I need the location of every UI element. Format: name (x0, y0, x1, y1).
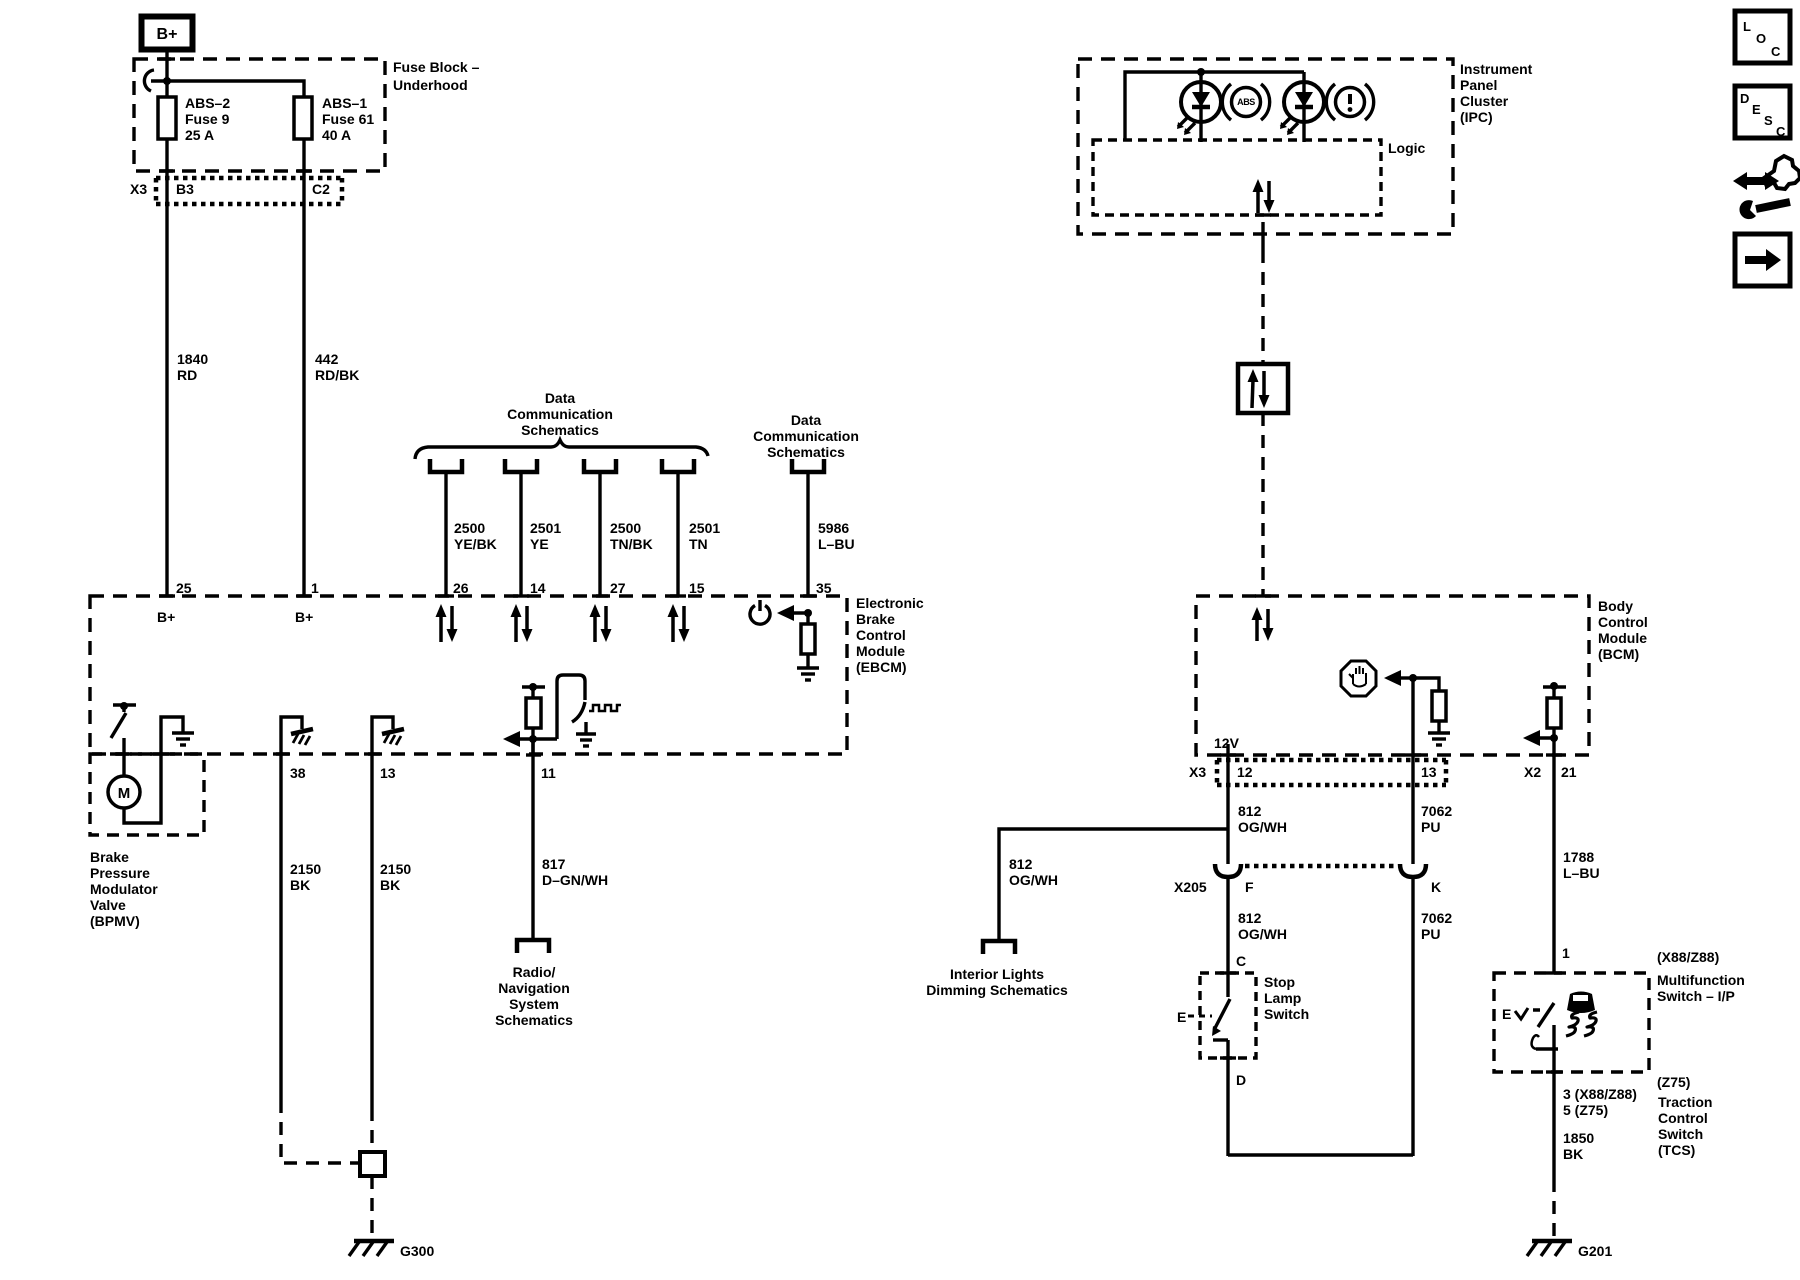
svg-text:OG/WH: OG/WH (1238, 819, 1287, 835)
svg-text:Cluster: Cluster (1460, 93, 1509, 109)
svg-text:(TCS): (TCS) (1658, 1142, 1695, 1158)
svg-text:3 (X88/Z88): 3 (X88/Z88) (1563, 1086, 1637, 1102)
wire 817 D-GN/WH pin 11 to radio (531, 739, 534, 940)
svg-text:OG/WH: OG/WH (1009, 872, 1058, 888)
svg-text:1788: 1788 (1563, 849, 1594, 865)
wire brake LED branch (1302, 72, 1305, 142)
svg-text:Pressure: Pressure (90, 865, 150, 881)
svg-text:Fuse Block –: Fuse Block – (393, 59, 480, 75)
svg-text:13: 13 (380, 765, 396, 781)
off-page connector wire 2500 YE/BK (430, 459, 462, 472)
arrow into EBCM logic pin 35 (777, 605, 808, 621)
svg-text:Data: Data (791, 412, 822, 428)
switch brake signal in EBCM (557, 675, 585, 739)
wire IPC telltale bus (1125, 72, 1304, 140)
ground G201 chassis symbol (1527, 1241, 1572, 1256)
svg-text:TN: TN (689, 536, 708, 552)
svg-text:F: F (1245, 879, 1254, 895)
svg-text:(EBCM): (EBCM) (856, 659, 907, 675)
wire label 812 OG/WH branch (1009, 856, 1058, 888)
battery feed B+ box (142, 17, 193, 50)
svg-text:B+: B+ (157, 26, 178, 43)
svg-text:YE/BK: YE/BK (454, 536, 497, 552)
svg-text:RD/BK: RD/BK (315, 367, 359, 383)
fuse ABS-1 Fuse 61 40A (294, 97, 312, 139)
off-page connector wire 2500 TN/BK (584, 459, 616, 472)
svg-text:Navigation: Navigation (498, 980, 570, 996)
svg-text:B3: B3 (176, 181, 194, 197)
brace over data wires (415, 440, 708, 459)
svg-text:B+: B+ (157, 609, 175, 625)
svg-text:2150: 2150 (290, 861, 321, 877)
wire label 812 OG/WH upper (1238, 803, 1287, 835)
bidirectional data arrows pin 15 (668, 604, 690, 642)
dashed serial data wire lower (1261, 413, 1264, 596)
LED brake indicator (1280, 82, 1324, 135)
wire junction to pull-up resistor (1413, 678, 1439, 691)
svg-text:Modulator: Modulator (90, 881, 158, 897)
svg-text:Logic: Logic (1388, 140, 1426, 156)
wire 1850 BK (1552, 1072, 1555, 1179)
traction control skid icon (1566, 992, 1597, 1037)
wire serial data crossing IPC boundary (1261, 222, 1264, 250)
wire label 812 OG/WH lower (1238, 910, 1287, 942)
svg-text:PU: PU (1421, 926, 1440, 942)
svg-text:11: 11 (541, 765, 556, 781)
svg-text:Fuse 9: Fuse 9 (185, 111, 230, 127)
svg-text:Module: Module (856, 643, 905, 659)
svg-text:442: 442 (315, 351, 339, 367)
svg-text:Stop: Stop (1264, 974, 1295, 990)
wire 812 OG/WH BCM pin 12 (1226, 744, 1229, 864)
brake apply sensing in EBCM: supply bar (522, 683, 545, 698)
label Interior Lights Dimming Schematics (926, 966, 1068, 998)
svg-text:ABS: ABS (1237, 97, 1255, 107)
wire label 7062 PU upper (1421, 803, 1452, 835)
wire to termination resistor (806, 613, 809, 624)
stop lamp switch dashed box (1200, 973, 1256, 1058)
svg-text:Switch – I/P: Switch – I/P (1657, 988, 1735, 1004)
wire 2500 TN/BK to EBCM pin 27 (598, 474, 601, 596)
svg-text:21: 21 (1561, 764, 1577, 780)
svg-text:Module: Module (1598, 630, 1647, 646)
fuse ABS-2 Fuse 9 25A (158, 97, 176, 139)
stop hand symbol in BCM (1341, 661, 1376, 696)
serial data two-way box (1238, 364, 1288, 413)
bidirectional data arrows BCM (1252, 607, 1274, 641)
svg-text:X3: X3 (1189, 764, 1206, 780)
BCM dashed box (1196, 596, 1589, 755)
svg-text:OG/WH: OG/WH (1238, 926, 1287, 942)
svg-text:7062: 7062 (1421, 803, 1452, 819)
svg-text:L–BU: L–BU (1563, 865, 1600, 881)
dashed wire 38 to splice (281, 1100, 358, 1163)
svg-text:YE: YE (530, 536, 549, 552)
svg-text:Lamp: Lamp (1264, 990, 1301, 1006)
connector X3 dotted box at fuse block (156, 178, 342, 204)
svg-text:26: 26 (453, 580, 469, 596)
svg-text:O: O (1756, 31, 1766, 46)
svg-text:(IPC): (IPC) (1460, 109, 1493, 125)
svg-text:ABS–1: ABS–1 (322, 95, 367, 111)
svg-text:S: S (1764, 113, 1773, 128)
svg-text:G300: G300 (400, 1243, 434, 1259)
svg-text:Brake: Brake (90, 849, 129, 865)
svg-text:14: 14 (530, 580, 546, 596)
svg-text:TN/BK: TN/BK (610, 536, 653, 552)
svg-text:2501: 2501 (530, 520, 561, 536)
svg-text:BK: BK (290, 877, 310, 893)
actuator E label TCS (1502, 1006, 1540, 1022)
svg-text:Schematics: Schematics (495, 1012, 573, 1028)
svg-text:(X88/Z88): (X88/Z88) (1657, 949, 1719, 965)
svg-text:1840: 1840 (177, 351, 208, 367)
wire switch D leg (1213, 1038, 1228, 1041)
svg-text:812: 812 (1238, 803, 1262, 819)
svg-text:L: L (1743, 19, 1751, 34)
dashed serial data wire upper (1261, 250, 1264, 364)
svg-text:E: E (1752, 102, 1761, 117)
svg-text:1: 1 (1562, 945, 1570, 961)
svg-text:5 (Z75): 5 (Z75) (1563, 1102, 1608, 1118)
svg-text:Communication: Communication (507, 406, 613, 422)
svg-text:2501: 2501 (689, 520, 720, 536)
wire loop D to K (1228, 1153, 1413, 1156)
svg-text:1: 1 (311, 580, 319, 596)
svg-text:35: 35 (816, 580, 832, 596)
svg-text:Body: Body (1598, 598, 1633, 614)
arrow to stop hand (1384, 670, 1413, 686)
svg-text:38: 38 (290, 765, 306, 781)
in-line connector X205-F (1215, 864, 1241, 877)
in-line connector X205-K (1400, 864, 1426, 877)
EBCM dashed box (90, 596, 847, 754)
svg-text:Data: Data (545, 390, 576, 406)
svg-text:812: 812 (1009, 856, 1033, 872)
dotted connector line X205 (1245, 864, 1397, 869)
bidirectional data arrows pin 27 (590, 604, 612, 642)
svg-text:7062: 7062 (1421, 910, 1452, 926)
label Electronic Brake Control Module EBCM (856, 595, 924, 675)
svg-text:Multifunction: Multifunction (1657, 972, 1745, 988)
arrow output pin 11 (503, 731, 557, 747)
wire resistor to pin 21 (1552, 728, 1555, 974)
label Brake Pressure Modulator Valve BPMV (90, 849, 158, 929)
dashed wire to G201 (1552, 1179, 1555, 1238)
ground symbol pump motor return (172, 733, 194, 745)
svg-text:5986: 5986 (818, 520, 849, 536)
resistor BCM stop lamp input (1432, 691, 1446, 721)
svg-text:Control: Control (856, 627, 906, 643)
pin 3 5 labels (1563, 1086, 1637, 1118)
supply bar 12V sense wire 1788 (1543, 682, 1566, 698)
resistor pull-up wire 817 (526, 698, 541, 728)
wire label 1788 L-BU (1563, 849, 1600, 881)
wire 2500 YE/BK to EBCM pin 26 (444, 474, 447, 596)
svg-text:C: C (1236, 953, 1246, 969)
label Radio Navigation System Schematics (495, 964, 573, 1028)
off-page connector interior lights (983, 941, 1015, 954)
wire branch to interior lights dimming (999, 829, 1228, 941)
svg-text:C: C (1771, 44, 1781, 59)
svg-text:27: 27 (610, 580, 626, 596)
wire contact to pump motor (122, 738, 125, 777)
svg-text:(BCM): (BCM) (1598, 646, 1639, 662)
svg-text:12: 12 (1237, 764, 1253, 780)
wire 442 RD/BK fuse 61 to EBCM pin 1 (302, 139, 305, 596)
wire crossing ticks at dashed boundaries (116, 59, 1562, 1072)
svg-text:Brake: Brake (856, 611, 895, 627)
off-page connector wire 2501 YE (505, 459, 537, 472)
svg-text:Switch: Switch (1658, 1126, 1703, 1142)
svg-text:E: E (1502, 1006, 1511, 1022)
svg-text:C: C (1776, 124, 1786, 139)
svg-text:D–GN/WH: D–GN/WH (542, 872, 608, 888)
wire jumper to ABS-1 fuse (151, 81, 304, 99)
wire pump motor to EBCM internal ground (124, 717, 183, 823)
svg-text:System: System (509, 996, 559, 1012)
dashed wire 13 to splice (370, 1108, 373, 1152)
data communication schematics label (right single) (753, 412, 859, 460)
bidirectional data arrows pin 14 (511, 604, 533, 642)
actuator E label stop lamp (1177, 1009, 1212, 1025)
ground symbol BCM (1428, 733, 1450, 745)
svg-text:Fuse 61: Fuse 61 (322, 111, 374, 127)
svg-text:E: E (1177, 1009, 1186, 1025)
power standby symbol at pin 35 (750, 600, 770, 624)
ABS warning symbol (1222, 84, 1269, 120)
svg-text:L–BU: L–BU (818, 536, 855, 552)
switch TCS blade (1538, 1003, 1554, 1027)
svg-text:Panel: Panel (1460, 77, 1497, 93)
svg-text:Schematics: Schematics (521, 422, 599, 438)
wire 5986 L-BU to EBCM pin 35 (806, 474, 809, 596)
svg-text:2500: 2500 (454, 520, 485, 536)
off-page connector wire 2501 TN (662, 459, 694, 472)
wire B+ to fuse ABS-2 (165, 49, 168, 99)
wire 2150 BK pin 13 with internal chassis ground (372, 717, 404, 1108)
PWM square wave symbol (589, 705, 621, 711)
label Instrument Panel Cluster IPC (1460, 61, 1533, 125)
node junction wire 5986 (804, 609, 812, 617)
arrow TCS signal input (1523, 730, 1558, 746)
svg-text:G201: G201 (1578, 1243, 1612, 1259)
pump motor M in BPMV (108, 776, 140, 808)
wire 2501 YE to EBCM pin 14 (519, 474, 522, 596)
svg-text:2150: 2150 (380, 861, 411, 877)
svg-text:BK: BK (380, 877, 400, 893)
svg-text:Valve: Valve (90, 897, 126, 913)
label Stop Lamp Switch (1264, 974, 1309, 1022)
svg-text:Radio/: Radio/ (513, 964, 556, 980)
node junction pin 13 BCM (1409, 674, 1417, 682)
wire 7062 PU from K to loop (1411, 877, 1414, 1156)
svg-text:X205: X205 (1174, 879, 1207, 895)
svg-text:(BPMV): (BPMV) (90, 913, 140, 929)
off-page connector wire 5986 L-BU (792, 459, 824, 472)
svg-text:K: K (1431, 879, 1441, 895)
legend icon arrow (1735, 234, 1790, 286)
legend icon DESC (1735, 86, 1790, 139)
svg-text:Interior Lights: Interior Lights (950, 966, 1044, 982)
svg-text:D: D (1236, 1072, 1246, 1088)
ground symbol EBCM termination (797, 668, 819, 680)
svg-text:25 A: 25 A (185, 127, 214, 143)
svg-text:ABS–2: ABS–2 (185, 95, 230, 111)
connector X3 dotted box BCM (1217, 760, 1446, 785)
wire label 7062 PU lower (1421, 910, 1452, 942)
wire 2501 TN to EBCM pin 15 (676, 474, 679, 596)
logic dashed box in IPC (1093, 140, 1381, 215)
brake warning symbol (1326, 84, 1373, 120)
ground G300 chassis symbol (349, 1241, 394, 1256)
svg-text:PU: PU (1421, 819, 1440, 835)
crossing tick pin 11 (526, 753, 541, 756)
ground symbol brake switch (576, 722, 596, 746)
dashed wire splice to G300 (370, 1176, 373, 1238)
wire resistor to ground (806, 654, 809, 667)
svg-text:Dimming Schematics: Dimming Schematics (926, 982, 1068, 998)
svg-text:Schematics: Schematics (767, 444, 845, 460)
bidirectional data arrows pin 26 (436, 604, 458, 642)
wire resistor to ground BCM (1437, 721, 1440, 732)
svg-text:Control: Control (1598, 614, 1648, 630)
switch stop lamp blade (1212, 999, 1230, 1036)
svg-text:BK: BK (1563, 1146, 1583, 1162)
label Multifunction Switch I/P (1657, 972, 1745, 1004)
svg-text:Switch: Switch (1264, 1006, 1309, 1022)
node junction ABS telltale (1197, 68, 1205, 76)
svg-text:Control: Control (1658, 1110, 1708, 1126)
legend icon LOC (1735, 11, 1790, 63)
LED ABS indicator (1177, 82, 1221, 135)
legend icon data exchange wrench (1733, 156, 1800, 219)
wire 2150 BK pin 38 with internal chassis ground (281, 717, 313, 1100)
svg-text:Electronic: Electronic (856, 595, 924, 611)
svg-text:M: M (118, 785, 131, 802)
fuse block underhood dashed box (134, 59, 385, 171)
off-page connector radio navigation (517, 940, 549, 953)
svg-text:817: 817 (542, 856, 566, 872)
label Fuse Block Underhood (393, 59, 480, 93)
connector hook at fuse block feed (144, 70, 154, 91)
node junction pin 11 (529, 735, 537, 743)
label Traction Control Switch TCS (1658, 1094, 1712, 1158)
multifunction switch dashed box (1494, 973, 1649, 1072)
svg-text:25: 25 (176, 580, 192, 596)
label Body Control Module BCM (1598, 598, 1648, 662)
svg-text:2500: 2500 (610, 520, 641, 536)
svg-text:X3: X3 (130, 181, 147, 197)
splice S-box (360, 1152, 385, 1176)
svg-text:(Z75): (Z75) (1657, 1074, 1690, 1090)
wire 812 OG/WH to stop lamp switch C (1226, 877, 1229, 997)
svg-text:Traction: Traction (1658, 1094, 1712, 1110)
svg-text:RD: RD (177, 367, 197, 383)
resistor termination 5986 (801, 624, 815, 654)
svg-text:Instrument: Instrument (1460, 61, 1533, 77)
wire ABS LED branch (1199, 72, 1202, 142)
svg-text:X2: X2 (1524, 764, 1541, 780)
node junction B+ feed (163, 77, 171, 85)
svg-text:Underhood: Underhood (393, 77, 468, 93)
momentary contact symbol (1532, 1025, 1558, 1072)
resistor BCM TCS input (1547, 698, 1561, 728)
svg-text:812: 812 (1238, 910, 1262, 926)
svg-text:1850: 1850 (1563, 1130, 1594, 1146)
pump motor relay contact in EBCM (111, 702, 136, 738)
BPMV dashed box (90, 754, 204, 835)
svg-text:15: 15 (689, 580, 705, 596)
svg-text:B+: B+ (295, 609, 313, 625)
wire 7062 PU BCM pin 13 (1411, 678, 1414, 864)
svg-text:13: 13 (1421, 764, 1437, 780)
svg-text:D: D (1740, 91, 1749, 106)
wire resistor to junction (531, 728, 534, 755)
data communication schematics label (left group) (507, 390, 613, 438)
wire 1840 RD fuse 9 to EBCM pin 25 (165, 139, 168, 596)
bidirectional data arrows IPC logic (1253, 179, 1275, 213)
IPC dashed box (1078, 59, 1453, 234)
svg-text:40 A: 40 A (322, 127, 351, 143)
svg-text:C2: C2 (312, 181, 330, 197)
svg-text:Communication: Communication (753, 428, 859, 444)
